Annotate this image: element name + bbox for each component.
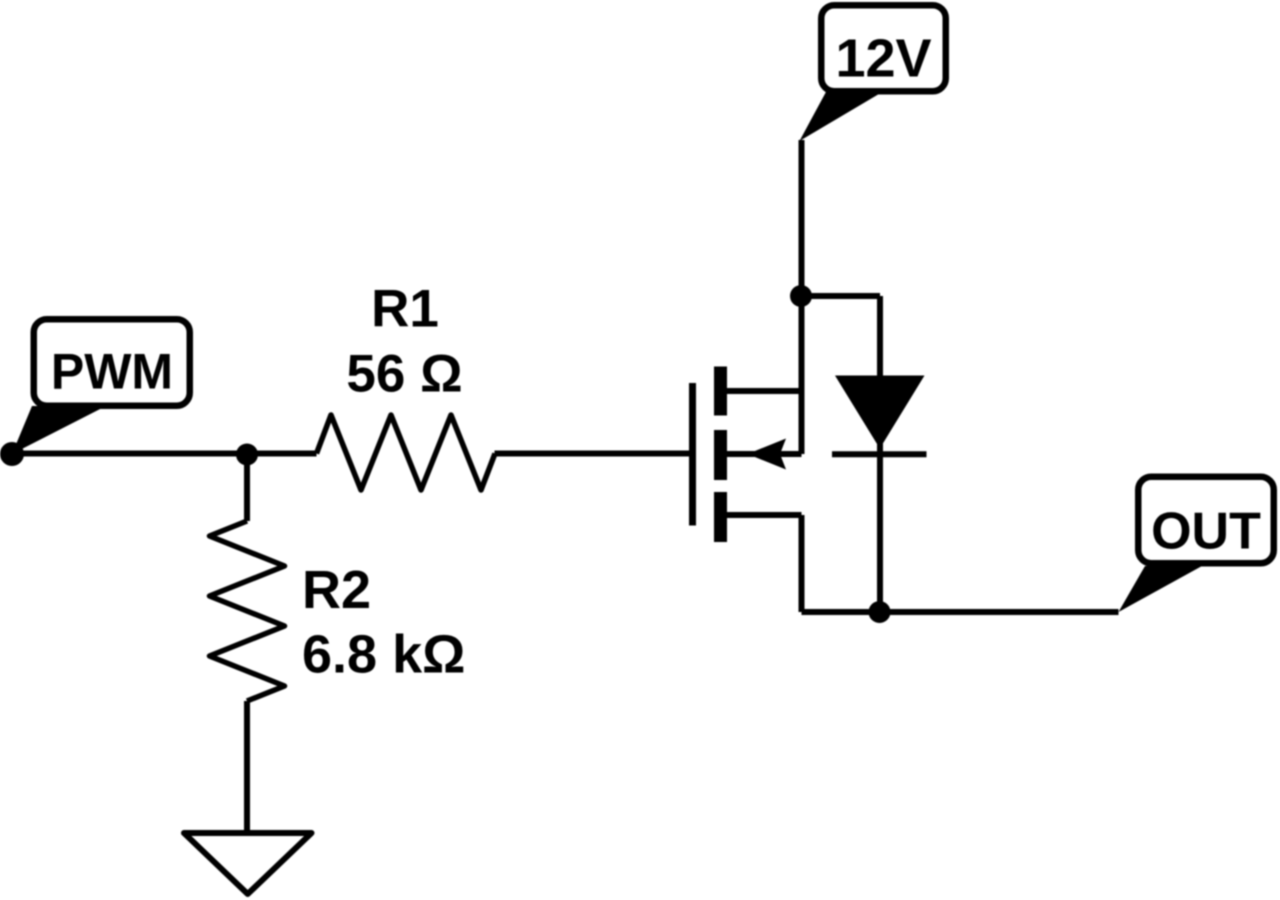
svg-text:R2: R2 xyxy=(302,560,371,620)
svg-text:R1: R1 xyxy=(371,280,439,339)
svg-text:12V: 12V xyxy=(835,29,931,89)
svg-text:56 Ω: 56 Ω xyxy=(346,345,462,404)
svg-text:PWM: PWM xyxy=(51,344,173,400)
svg-text:OUT: OUT xyxy=(1151,503,1261,561)
svg-text:6.8 kΩ: 6.8 kΩ xyxy=(302,625,465,685)
